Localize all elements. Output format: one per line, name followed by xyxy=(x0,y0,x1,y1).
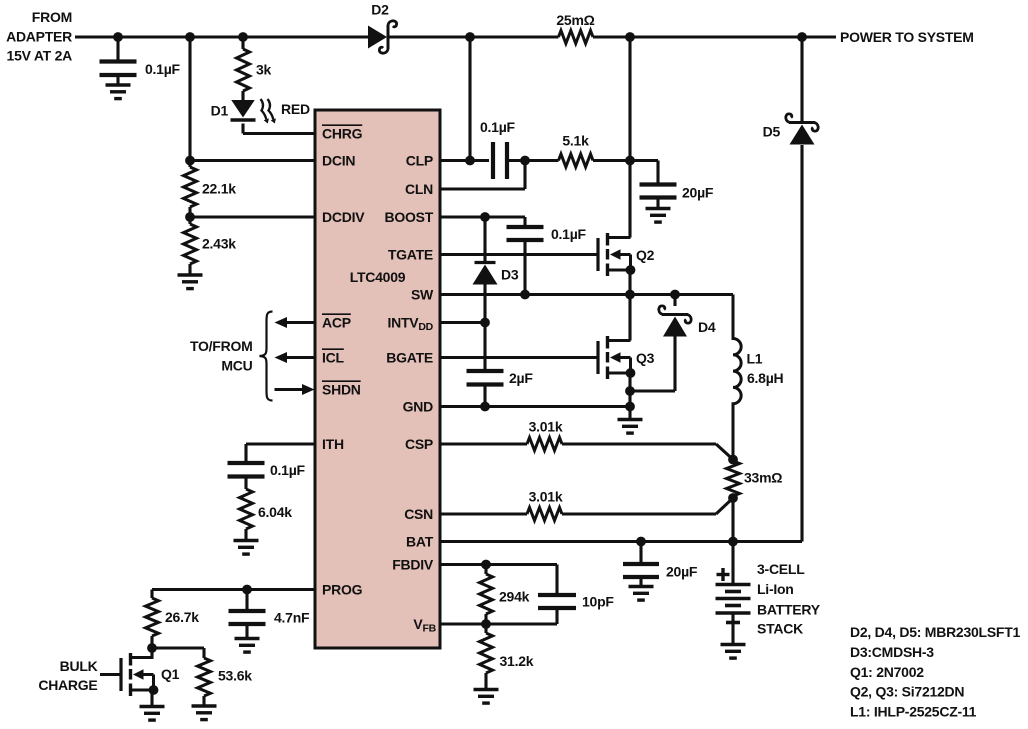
svg-text:GND: GND xyxy=(403,398,434,414)
svg-text:FROM: FROM xyxy=(32,9,72,25)
svg-text:2.43k: 2.43k xyxy=(202,235,236,251)
svg-text:FBDIV: FBDIV xyxy=(392,556,434,572)
svg-text:3.01k: 3.01k xyxy=(529,418,563,434)
svg-text:0.1µF: 0.1µF xyxy=(145,61,181,77)
svg-text:BGATE: BGATE xyxy=(386,349,433,365)
svg-text:CSN: CSN xyxy=(404,506,433,522)
svg-text:POWER TO SYSTEM: POWER TO SYSTEM xyxy=(840,29,974,45)
svg-text:2µF: 2µF xyxy=(509,370,533,386)
svg-text:RED: RED xyxy=(281,101,310,117)
svg-text:SW: SW xyxy=(411,286,434,302)
svg-text:LTC4009: LTC4009 xyxy=(350,269,406,285)
svg-text:294k: 294k xyxy=(499,588,530,604)
svg-text:Q3: Q3 xyxy=(636,350,655,366)
svg-text:25mΩ: 25mΩ xyxy=(556,12,594,28)
svg-text:D4: D4 xyxy=(698,319,716,335)
svg-text:BATTERY: BATTERY xyxy=(757,601,821,617)
svg-text:Q2, Q3: Si7212DN: Q2, Q3: Si7212DN xyxy=(850,683,964,699)
svg-text:0.1µF: 0.1µF xyxy=(551,226,587,242)
svg-text:CHARGE: CHARGE xyxy=(38,677,97,693)
svg-text:CSP: CSP xyxy=(405,436,433,452)
svg-text:CLN: CLN xyxy=(405,181,433,197)
svg-text:15V AT 2A: 15V AT 2A xyxy=(7,47,73,63)
svg-text:31.2k: 31.2k xyxy=(500,653,534,669)
svg-text:22.1k: 22.1k xyxy=(202,180,236,196)
svg-text:D3: D3 xyxy=(501,266,519,282)
svg-text:20µF: 20µF xyxy=(682,184,714,200)
svg-text:D2, D4, D5: MBR230LSFT1: D2, D4, D5: MBR230LSFT1 xyxy=(850,624,1021,640)
svg-text:6.8µH: 6.8µH xyxy=(747,370,784,386)
svg-text:BOOST: BOOST xyxy=(384,209,433,225)
svg-text:0.1µF: 0.1µF xyxy=(480,119,516,135)
svg-text:ADAPTER: ADAPTER xyxy=(6,28,72,44)
svg-text:STACK: STACK xyxy=(757,620,803,636)
svg-text:5.1k: 5.1k xyxy=(562,132,589,148)
svg-text:3k: 3k xyxy=(256,61,272,77)
svg-text:10pF: 10pF xyxy=(582,593,614,609)
svg-text:4.7nF: 4.7nF xyxy=(274,609,310,625)
svg-text:TO/FROM: TO/FROM xyxy=(190,338,253,354)
svg-text:Q1: 2N7002: Q1: 2N7002 xyxy=(850,664,924,680)
svg-text:3-CELL: 3-CELL xyxy=(757,561,805,577)
svg-text:Li-Ion: Li-Ion xyxy=(757,581,794,597)
svg-text:6.04k: 6.04k xyxy=(258,504,292,520)
svg-text:20µF: 20µF xyxy=(666,563,698,579)
svg-text:CLP: CLP xyxy=(406,152,433,168)
svg-text:DCDIV: DCDIV xyxy=(322,209,365,225)
svg-text:BULK: BULK xyxy=(60,658,98,674)
svg-text:DCIN: DCIN xyxy=(322,152,355,168)
svg-text:TGATE: TGATE xyxy=(388,246,433,262)
svg-text:D1: D1 xyxy=(211,102,229,118)
svg-text:PROG: PROG xyxy=(322,581,363,597)
svg-text:Q2: Q2 xyxy=(636,247,655,263)
svg-text:L1: IHLP-2525CZ-11: L1: IHLP-2525CZ-11 xyxy=(850,703,977,719)
svg-text:L1: L1 xyxy=(747,350,763,366)
svg-text:BAT: BAT xyxy=(406,533,434,549)
svg-text:53.6k: 53.6k xyxy=(218,667,252,683)
svg-text:MCU: MCU xyxy=(221,357,252,373)
svg-text:0.1µF: 0.1µF xyxy=(270,462,306,478)
svg-text:CHRG: CHRG xyxy=(322,125,363,141)
svg-text:ITH: ITH xyxy=(322,436,344,452)
svg-text:ICL: ICL xyxy=(322,349,345,365)
svg-text:Q1: Q1 xyxy=(161,666,180,682)
svg-text:D2: D2 xyxy=(371,1,389,17)
svg-text:ACP: ACP xyxy=(322,314,351,330)
svg-text:SHDN: SHDN xyxy=(322,381,361,397)
svg-text:3.01k: 3.01k xyxy=(529,488,563,504)
svg-text:33mΩ: 33mΩ xyxy=(744,469,782,485)
svg-text:26.7k: 26.7k xyxy=(165,609,199,625)
svg-text:D3:CMDSH-3: D3:CMDSH-3 xyxy=(850,644,934,660)
svg-text:D5: D5 xyxy=(763,123,781,139)
